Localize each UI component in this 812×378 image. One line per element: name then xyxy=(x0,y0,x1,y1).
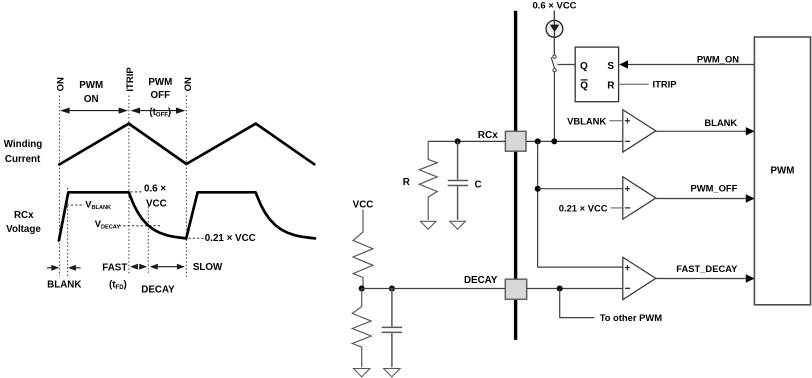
svg-text:0.6 × VCC: 0.6 × VCC xyxy=(532,0,576,11)
svg-text:DECAY: DECAY xyxy=(141,284,175,295)
pad DECAY xyxy=(505,279,526,299)
junction dot RCx-switch branch xyxy=(551,138,557,144)
junction dot comp2 plus branch xyxy=(535,186,541,192)
pad RCx xyxy=(505,131,526,151)
winding current waveform xyxy=(59,124,314,165)
svg-text:Current: Current xyxy=(5,154,41,165)
wire RCx node to comparator minus inputs xyxy=(526,140,623,142)
switch SW1 top contact xyxy=(553,55,556,58)
svg-text:0.21 × VCC: 0.21 × VCC xyxy=(205,233,256,244)
svg-text:To other PWM: To other PWM xyxy=(600,312,663,323)
svg-text:FAST: FAST xyxy=(102,262,127,273)
wire VBLANK lead xyxy=(609,120,622,122)
svg-text:PWM_OFF: PWM_OFF xyxy=(691,182,738,193)
svg-text:0.21 × VCC: 0.21 × VCC xyxy=(559,202,608,213)
resistor R xyxy=(419,141,437,220)
svg-text:VDECAY: VDECAY xyxy=(95,219,121,231)
svg-text:OFF: OFF xyxy=(151,90,171,101)
svg-text:SLOW: SLOW xyxy=(193,262,223,273)
junction dot at capacitor C xyxy=(455,138,461,144)
svg-text:BLANK: BLANK xyxy=(47,279,81,290)
dotted timeline marker ON (first) xyxy=(59,96,61,277)
svg-text:R: R xyxy=(403,177,410,188)
wire comp2 plus input xyxy=(538,188,623,190)
svg-text:VCC: VCC xyxy=(353,200,374,211)
svg-text:Voltage: Voltage xyxy=(6,224,41,235)
wire divider tap to DECAY pad xyxy=(362,288,506,290)
svg-text:FAST_DECAY: FAST_DECAY xyxy=(676,263,738,274)
comparator U4 (fast decay) xyxy=(623,257,656,299)
dotted leader VDECAY level xyxy=(119,225,162,227)
svg-text:DECAY: DECAY xyxy=(464,275,498,286)
dotted leader VBLANK level xyxy=(67,204,85,206)
svg-text:(tFD): (tFD) xyxy=(109,279,127,291)
svg-text:R: R xyxy=(607,80,615,91)
svg-text:(tOFF): (tOFF) xyxy=(149,107,171,119)
svg-text:ON: ON xyxy=(183,77,194,91)
capacitor C1 xyxy=(382,289,402,368)
svg-text:PWM: PWM xyxy=(148,77,172,88)
svg-text:Q: Q xyxy=(580,61,588,72)
wire 0.21 VCC lead xyxy=(611,207,623,209)
svg-text:VBLANK: VBLANK xyxy=(85,199,111,211)
dotted leader 0.21 VCC level xyxy=(189,237,205,239)
svg-text:PWM: PWM xyxy=(79,80,103,91)
capacitor C xyxy=(448,141,469,220)
RCx voltage waveform xyxy=(59,192,315,240)
dimension arrow SLOW xyxy=(153,266,181,268)
ground below C1 xyxy=(384,369,400,377)
svg-text:ITRIP: ITRIP xyxy=(653,79,677,90)
wire supply to current source xyxy=(553,11,555,56)
resistor divider upper R xyxy=(353,210,373,289)
wire PWM_ON with arrowhead into S xyxy=(627,64,755,66)
wire BLANK output with arrowhead into PWM xyxy=(656,130,755,132)
svg-text:BLANK: BLANK xyxy=(704,117,737,128)
svg-text:PWM_ON: PWM_ON xyxy=(697,53,739,64)
comparator U3 (0.21 VCC) xyxy=(623,177,656,219)
dimension arrow PWM OFF interval xyxy=(135,110,181,112)
wire RCx branch down to comparators 2 and 3 xyxy=(538,141,623,267)
device boundary bus xyxy=(514,11,517,340)
svg-text:VBLANK: VBLANK xyxy=(567,115,606,126)
wire FAST_DECAY output with arrowhead into PWM xyxy=(656,278,755,280)
wire DECAY pad to comparator minus xyxy=(527,288,623,290)
svg-text:Winding: Winding xyxy=(4,139,43,150)
svg-text:RCx: RCx xyxy=(478,130,498,141)
dimension arrow FAST (outward pair) xyxy=(130,264,138,270)
svg-text:VCC: VCC xyxy=(146,199,167,210)
ground below C xyxy=(450,221,466,229)
svg-text:ON: ON xyxy=(84,94,99,105)
junction dot divider tap xyxy=(359,286,365,292)
wire latch Q to switch xyxy=(557,64,575,66)
dimension arrow PWM ON interval xyxy=(65,110,123,112)
wire ITRIP lead xyxy=(619,83,649,85)
ground below lower R xyxy=(354,369,370,377)
dotted timeline marker ON (second) xyxy=(185,96,187,280)
switch SW1 bottom contact xyxy=(553,69,556,72)
junction dot to-other-PWM branch xyxy=(557,286,563,292)
ground below R xyxy=(420,221,436,229)
dotted timeline marker ITRIP xyxy=(128,96,130,275)
wire RCx pad to RC network xyxy=(428,140,505,142)
svg-text:ON: ON xyxy=(56,77,67,91)
dotted leader 0.6 VCC level xyxy=(131,191,144,193)
dotted timeline marker end-of-FAST xyxy=(147,203,149,274)
wire to other PWM xyxy=(560,289,595,318)
junction dot capacitor C1 tap xyxy=(389,286,395,292)
PWM block xyxy=(754,37,810,305)
resistor divider lower R xyxy=(352,289,371,368)
svg-text:S: S xyxy=(607,61,614,72)
svg-text:0.6 ×: 0.6 × xyxy=(144,184,166,195)
switch SW1 lever xyxy=(551,57,555,68)
dimension arrow BLANK (inward pair) xyxy=(47,267,53,269)
svg-text:PWM: PWM xyxy=(771,166,795,177)
svg-text:ITRIP: ITRIP xyxy=(125,67,136,92)
wire switch to RCx node xyxy=(553,72,555,141)
svg-text:Q: Q xyxy=(580,80,588,91)
comparator U2 (VBLANK) xyxy=(623,110,656,152)
SR latch U1 xyxy=(575,47,618,102)
wire PWM_OFF output with arrowhead into PWM xyxy=(656,198,755,200)
current source I1 xyxy=(546,20,563,37)
dotted timeline marker end-of-BLANK xyxy=(67,188,69,276)
svg-text:RCx: RCx xyxy=(14,210,34,221)
svg-text:C: C xyxy=(475,180,482,191)
junction dot RCx-comp2 branch xyxy=(535,138,541,144)
